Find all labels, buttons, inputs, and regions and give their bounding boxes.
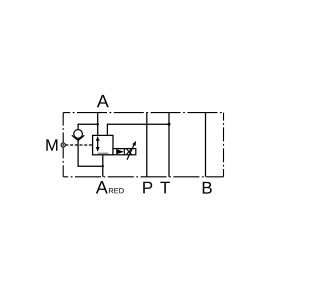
reducing valve flow arrow shaft	[97, 139, 99, 150]
wire check valve branch	[78, 124, 103, 166]
wire port B vertical	[205, 113, 207, 177]
wire gauge line M (dashed)	[65, 144, 92, 146]
adjustment arrow head	[132, 141, 136, 146]
poppet triangle	[116, 149, 124, 154]
wire port T vertical	[168, 113, 170, 177]
label M	[46, 139, 57, 150]
poppet seat line	[123, 149, 125, 155]
node junction on A_RED line	[102, 165, 104, 167]
node junction on A line	[96, 123, 99, 126]
wire port P vertical	[146, 113, 148, 177]
spring housing box	[113, 149, 136, 155]
gauge port M dot	[62, 144, 64, 146]
label A top	[97, 95, 109, 107]
label A_RED main	[96, 181, 108, 193]
gauge port M circle	[61, 143, 65, 147]
reducing valve flow arrow head down	[96, 147, 100, 152]
frame left (chain line)	[62, 113, 64, 177]
wire pilot drain to T	[107, 124, 169, 135]
check valve V1 ball	[74, 130, 83, 139]
reducing valve sensing line	[98, 152, 109, 154]
reducing valve body	[93, 135, 113, 154]
label B	[203, 182, 212, 194]
wire port A vertical	[97, 113, 99, 136]
check valve V1 seat	[72, 135, 85, 140]
adjustment arrow shaft	[127, 144, 134, 159]
spring zigzag	[126, 149, 131, 155]
label P	[143, 182, 152, 194]
node junction on T line	[168, 123, 171, 126]
frame top (chain line)	[63, 112, 223, 114]
label T	[160, 182, 170, 194]
label A_RED subscript	[109, 188, 124, 193]
frame bottom (chain line)	[63, 176, 223, 178]
wire port A_RED vertical	[102, 155, 104, 177]
reducing valve flow arrow head up	[96, 136, 100, 141]
frame right (chain line)	[223, 113, 225, 177]
